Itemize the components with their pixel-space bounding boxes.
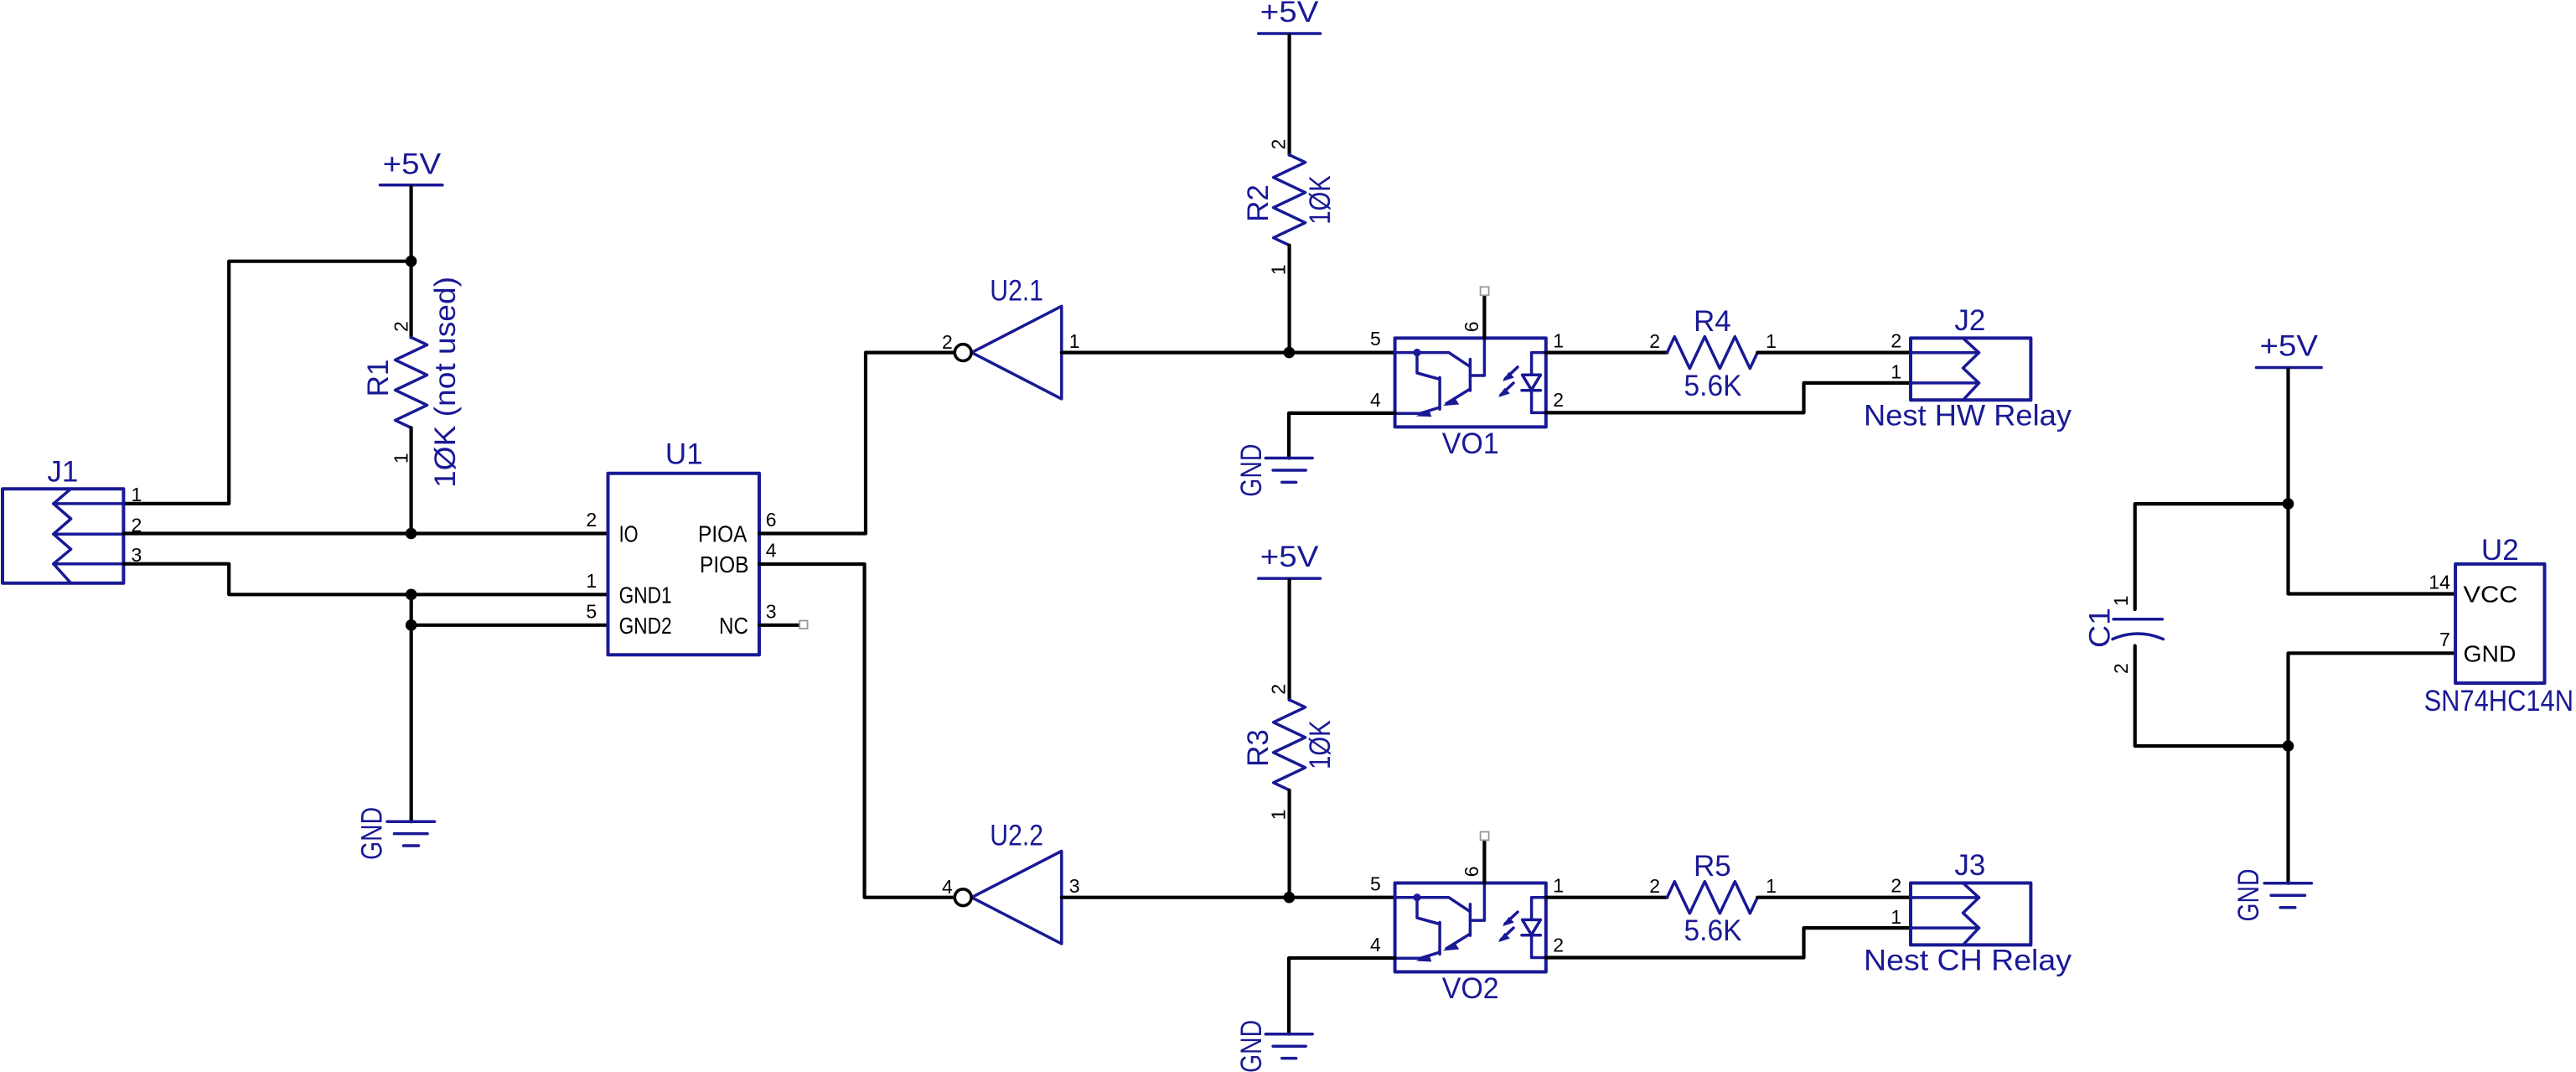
wire U2.2 output to VO2 pin5 <box>1062 896 1395 899</box>
svg-text:VCC: VCC <box>2464 582 2518 608</box>
svg-text:1ØK: 1ØK <box>1304 175 1337 225</box>
svg-text:GND2: GND2 <box>619 613 672 639</box>
svg-text:+5V: +5V <box>1260 0 1319 28</box>
svg-text:C1: C1 <box>2083 608 2116 648</box>
node junction at R1 top / J1 pin1 branch <box>406 256 417 267</box>
svg-text:+5V: +5V <box>2260 330 2319 363</box>
svg-text:4: 4 <box>1370 934 1381 955</box>
svg-text:R3: R3 <box>1242 729 1275 767</box>
svg-text:2: 2 <box>1268 684 1290 695</box>
junction GND1 branch <box>406 589 417 601</box>
wire junction to ground symbol <box>2286 746 2289 883</box>
svg-text:1: 1 <box>391 453 412 463</box>
svg-text:4: 4 <box>942 876 953 898</box>
svg-text:2: 2 <box>1553 389 1564 411</box>
svg-text:1: 1 <box>1268 810 1290 821</box>
wire to ground below U1 <box>410 594 413 821</box>
svg-text:1: 1 <box>1766 875 1777 897</box>
svg-text:GND1: GND1 <box>619 583 672 609</box>
IC U1 <box>586 438 776 655</box>
svg-text:+5V: +5V <box>1260 541 1319 573</box>
svg-text:R2: R2 <box>1242 184 1275 222</box>
svg-text:1ØK: 1ØK <box>1304 720 1337 769</box>
resistor R1 <box>362 262 462 534</box>
svg-text:6: 6 <box>1461 321 1482 332</box>
svg-text:4: 4 <box>766 540 777 562</box>
svg-text:J3: J3 <box>1954 849 1985 882</box>
ground symbol GND (right) <box>2232 869 2311 922</box>
svg-text:4: 4 <box>1370 389 1381 411</box>
svg-text:U2.1: U2.1 <box>990 275 1043 308</box>
wire +5V down to junction <box>2286 369 2289 504</box>
wire VO1 pin4 to ground <box>1289 413 1395 458</box>
svg-text:Nest HW Relay: Nest HW Relay <box>1864 400 2072 432</box>
svg-text:SN74HC14N: SN74HC14N <box>2424 685 2573 717</box>
inverter U2.2 <box>942 820 1079 944</box>
junction GND2 branch <box>406 619 417 631</box>
svg-text:1: 1 <box>586 570 597 592</box>
inverter U2.1 <box>942 275 1079 399</box>
svg-text:14: 14 <box>2429 571 2450 593</box>
svg-text:2: 2 <box>586 509 597 531</box>
supply +5V symbol (above R3) <box>1259 541 1321 578</box>
svg-text:2: 2 <box>1553 934 1564 955</box>
svg-text:5: 5 <box>586 600 597 622</box>
wire U2 GND to ground <box>2289 653 2456 746</box>
svg-text:PIOB: PIOB <box>700 552 749 577</box>
svg-text:1: 1 <box>1553 329 1564 351</box>
svg-text:GND: GND <box>2464 641 2517 667</box>
resistor R4 <box>1649 305 1777 402</box>
wire J1 pin1 to +5V node <box>123 262 411 504</box>
resistor R5 <box>1649 850 1777 947</box>
svg-text:VO2: VO2 <box>1442 972 1499 1005</box>
IC U2 <box>2424 534 2573 717</box>
svg-text:7: 7 <box>2439 629 2450 650</box>
wire R4 to J2 pin2 <box>1757 351 1911 355</box>
wire VO1 pin2 to J2 pin1 <box>1546 383 1911 413</box>
junction R2 bottom on node line <box>1284 347 1296 359</box>
unconnected pin marker at VO2 pin6 <box>1481 831 1489 840</box>
svg-text:2: 2 <box>2110 663 2132 674</box>
wire J1 pin2 to U1 IO <box>123 531 608 535</box>
resistor R3 <box>1242 580 1337 898</box>
svg-text:2: 2 <box>1649 875 1660 897</box>
wire junction to U2 VCC <box>2289 504 2456 593</box>
unconnected pin marker at VO1 pin6 <box>1481 287 1489 295</box>
wire U1 NC stub <box>759 624 799 627</box>
wire +5V to junction <box>410 187 413 262</box>
wire VO2 pin2 to J3 pin1 <box>1546 928 1911 957</box>
svg-text:GND: GND <box>355 807 388 860</box>
svg-text:6: 6 <box>1461 867 1482 878</box>
svg-text:J2: J2 <box>1954 304 1985 337</box>
ground symbol GND (below U1) <box>355 807 434 860</box>
capacitor C1 <box>2083 596 2163 674</box>
wire R5 to J3 pin2 <box>1757 896 1911 899</box>
svg-text:5: 5 <box>1370 328 1381 350</box>
svg-text:2: 2 <box>1649 330 1660 352</box>
svg-text:1: 1 <box>132 484 142 505</box>
svg-text:PIOA: PIOA <box>698 521 747 547</box>
svg-text:5.6K: 5.6K <box>1684 914 1742 947</box>
svg-text:U2: U2 <box>2481 534 2519 567</box>
svg-text:3: 3 <box>1069 875 1080 897</box>
wire VO1 pin6 stub <box>1482 295 1486 338</box>
svg-text:2: 2 <box>1891 329 1901 351</box>
connector J2 <box>1891 304 2030 400</box>
supply +5V symbol (left, above R1) <box>380 148 442 184</box>
wire C1 bottom branch <box>2135 646 2289 747</box>
svg-text:2: 2 <box>1268 139 1290 150</box>
ground symbol GND (below VO2) <box>1235 1020 1312 1072</box>
svg-text:5.6K: 5.6K <box>1684 370 1742 402</box>
svg-text:1: 1 <box>1766 330 1777 352</box>
wire GND2 line <box>411 624 608 627</box>
svg-text:1: 1 <box>1891 906 1901 928</box>
svg-text:R1: R1 <box>362 360 395 397</box>
svg-text:U1: U1 <box>665 438 703 471</box>
wire J1 pin3 to GND1 line <box>123 564 608 595</box>
svg-text:VO1: VO1 <box>1442 427 1499 460</box>
svg-text:Nest CH Relay: Nest CH Relay <box>1864 945 2072 977</box>
svg-text:J1: J1 <box>47 455 78 488</box>
svg-text:2: 2 <box>942 331 953 353</box>
svg-text:IO: IO <box>619 521 639 547</box>
wire U1 PIOA to U2.1 input <box>759 353 954 534</box>
junction +5V / C1 branch <box>2283 498 2294 510</box>
supply +5V symbol (right, above U2) <box>2257 330 2322 368</box>
wire VO2 pin6 stub <box>1482 840 1486 883</box>
svg-text:1: 1 <box>2110 596 2132 607</box>
svg-text:R5: R5 <box>1694 850 1731 883</box>
ground symbol GND (below VO1) <box>1235 444 1312 497</box>
svg-text:1: 1 <box>1268 265 1290 276</box>
junction C1 / GND net <box>2283 740 2294 752</box>
svg-text:GND: GND <box>2232 869 2265 922</box>
connector J1 <box>3 455 142 583</box>
svg-text:+5V: +5V <box>383 148 442 180</box>
svg-text:5: 5 <box>1370 873 1381 894</box>
optocoupler VO1 <box>1370 321 1564 460</box>
svg-text:U2.2: U2.2 <box>990 820 1043 852</box>
svg-text:1: 1 <box>1553 875 1564 897</box>
resistor R2 <box>1242 35 1337 353</box>
svg-text:1ØK (not used): 1ØK (not used) <box>429 277 462 488</box>
unconnected pin marker at NC <box>799 621 807 629</box>
optocoupler VO2 <box>1370 867 1564 1006</box>
wire U2.1 output to VO1 pin5 <box>1062 351 1395 355</box>
wire VO1 pin1 to R4 <box>1546 351 1668 355</box>
wire VO2 pin1 to R5 <box>1546 896 1668 899</box>
svg-text:GND: GND <box>1235 1020 1268 1072</box>
svg-text:2: 2 <box>1891 874 1901 896</box>
svg-text:GND: GND <box>1235 444 1268 497</box>
svg-text:1: 1 <box>1069 330 1080 352</box>
wire VO2 pin4 to ground <box>1289 958 1395 1034</box>
wire C1 top branch <box>2135 504 2289 609</box>
svg-text:6: 6 <box>766 509 777 531</box>
svg-text:3: 3 <box>766 600 777 622</box>
wire U1 PIOB to U2.2 input <box>759 564 954 898</box>
junction R3 bottom on node line <box>1284 892 1296 904</box>
supply +5V symbol (above R2) <box>1259 0 1321 34</box>
svg-text:1: 1 <box>1891 361 1901 383</box>
junction R1 bottom on IO line <box>406 528 417 540</box>
svg-text:R4: R4 <box>1694 305 1731 338</box>
connector J3 <box>1891 849 2030 945</box>
svg-text:NC: NC <box>719 613 748 639</box>
svg-text:2: 2 <box>391 321 412 332</box>
